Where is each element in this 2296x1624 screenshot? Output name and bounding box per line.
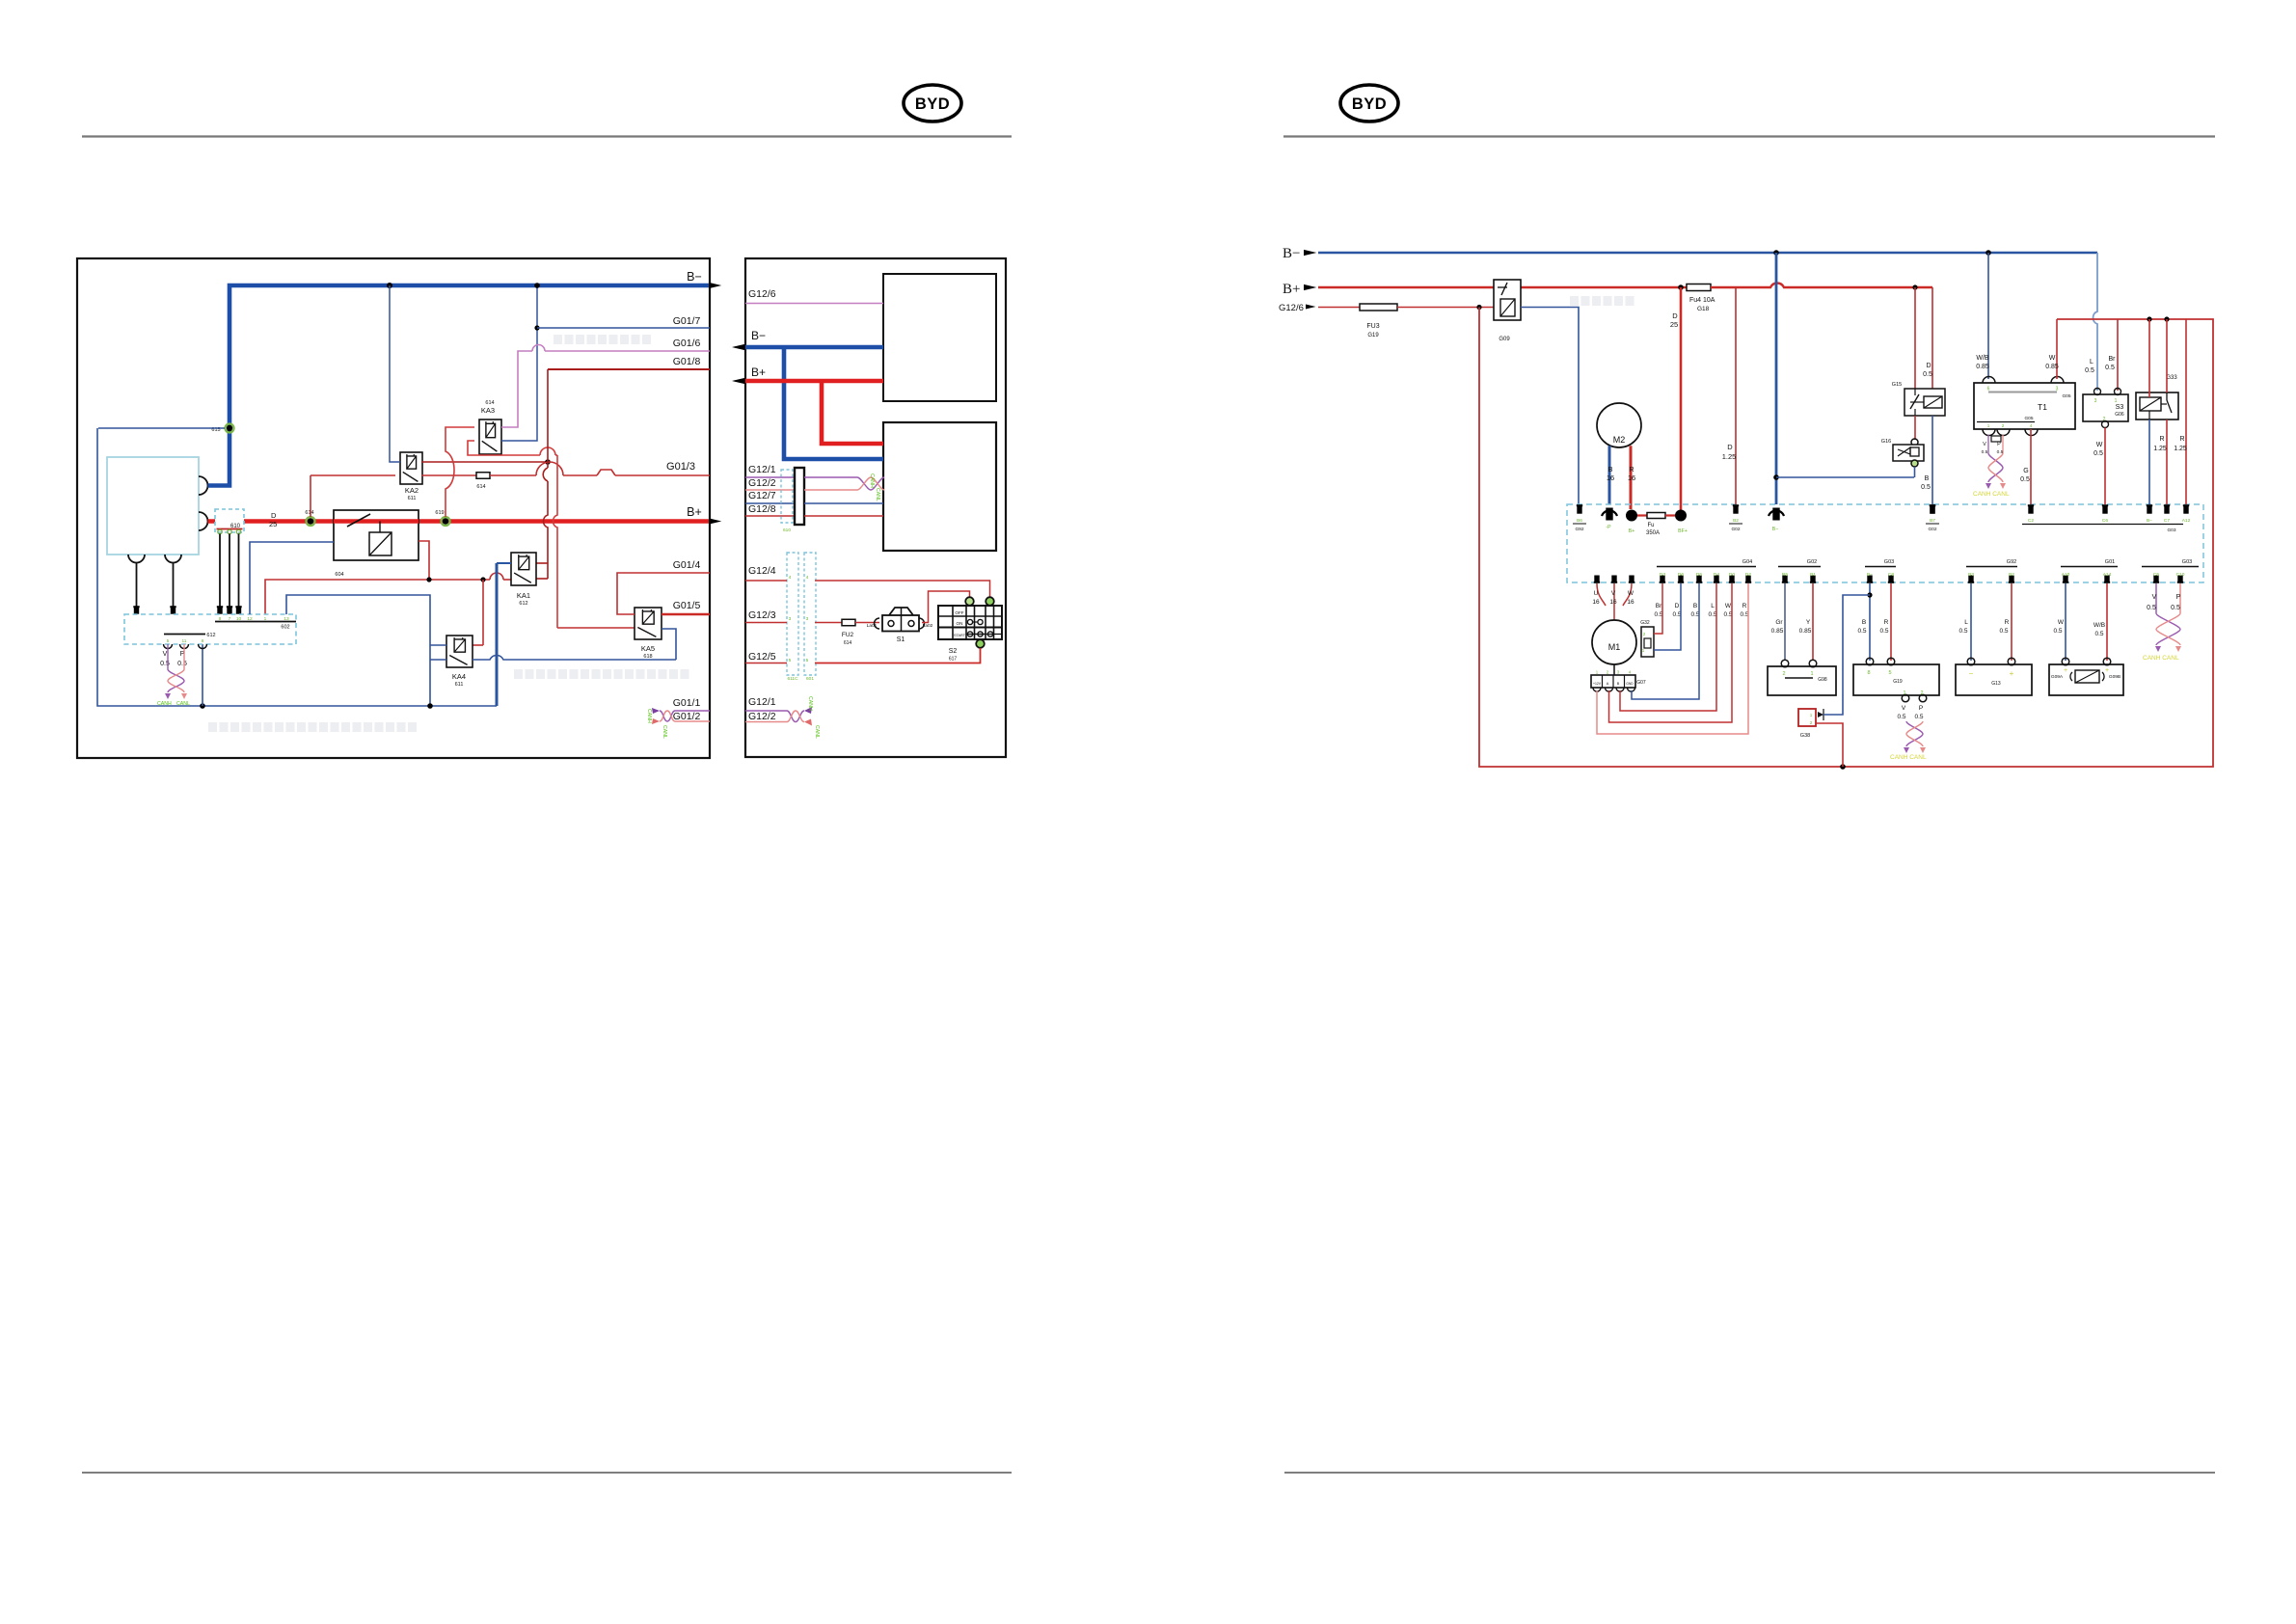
svg-text:KA1: KA1 <box>517 591 530 600</box>
svg-text:FU3: FU3 <box>1366 323 1379 330</box>
svg-text:619: 619 <box>435 510 444 516</box>
svg-text:G98: G98 <box>1818 677 1827 683</box>
svg-text:V: V <box>1902 705 1906 712</box>
svg-text:2: 2 <box>1782 671 1785 677</box>
svg-text:B2: B2 <box>1733 518 1739 524</box>
svg-text:B−: B− <box>1772 527 1779 532</box>
svg-text:0.85: 0.85 <box>1976 364 1989 370</box>
svg-text:G05: G05 <box>2024 416 2033 421</box>
svg-text:CANH CANL: CANH CANL <box>1890 754 1927 761</box>
svg-text:617: 617 <box>949 657 958 663</box>
svg-text:C8: C8 <box>1888 572 1894 578</box>
svg-text:16: 16 <box>1592 599 1600 606</box>
svg-text:8: 8 <box>202 638 204 644</box>
svg-text:BYD: BYD <box>915 95 950 113</box>
svg-text:5: 5 <box>806 658 809 663</box>
svg-text:W: W <box>1725 603 1732 609</box>
svg-text:T1: T1 <box>2038 402 2047 412</box>
svg-text:G05: G05 <box>2062 393 2070 399</box>
svg-text:12: 12 <box>247 616 253 622</box>
svg-text:L: L <box>1711 603 1715 609</box>
svg-text:Br: Br <box>1656 603 1662 609</box>
svg-text:25: 25 <box>269 520 277 528</box>
svg-text:1: 1 <box>1987 423 1990 428</box>
svg-text:B: B <box>1862 619 1866 626</box>
svg-text:A14: A14 <box>2103 572 2112 578</box>
svg-text:0.5: 0.5 <box>1914 714 1923 720</box>
svg-text:G01/5: G01/5 <box>673 600 701 611</box>
svg-text:D3: D3 <box>1660 572 1665 578</box>
svg-text:G09: G09 <box>1499 337 1510 342</box>
svg-text:0.5: 0.5 <box>1982 449 1988 455</box>
svg-text:0.5: 0.5 <box>1958 628 1967 635</box>
svg-text:BYD: BYD <box>1352 95 1387 113</box>
svg-text:B1: B1 <box>1810 572 1816 578</box>
svg-text:0.5: 0.5 <box>2093 450 2103 457</box>
svg-text:Fu4 10A: Fu4 10A <box>1689 297 1715 304</box>
svg-text:1.25: 1.25 <box>2153 446 2167 452</box>
svg-text:G19: G19 <box>1367 333 1379 338</box>
svg-text:B6: B6 <box>1577 518 1582 524</box>
svg-text:CANH: CANH <box>807 696 813 711</box>
svg-text:618: 618 <box>643 654 652 660</box>
svg-text:612: 612 <box>206 633 215 638</box>
svg-text:G12/6: G12/6 <box>748 288 776 300</box>
svg-text:CANH CANL: CANH CANL <box>2143 655 2179 662</box>
svg-text:4: 4 <box>806 575 809 581</box>
svg-text:1.25: 1.25 <box>1722 452 1737 461</box>
svg-text:START: START <box>954 634 966 637</box>
svg-text:S1: S1 <box>897 636 905 643</box>
svg-text:C7: C7 <box>2164 518 2170 524</box>
svg-text:1: 1 <box>264 616 267 622</box>
svg-text:G02: G02 <box>1928 527 1936 532</box>
svg-text:G12/5: G12/5 <box>748 651 776 663</box>
svg-text:C2: C2 <box>2028 518 2034 524</box>
svg-text:D: D <box>271 511 277 520</box>
svg-text:610: 610 <box>783 528 791 533</box>
svg-text:La02: La02 <box>923 623 933 629</box>
svg-text:C6: C6 <box>2102 518 2108 524</box>
svg-text:0.5: 0.5 <box>1857 628 1866 635</box>
svg-text:16: 16 <box>1627 599 1634 606</box>
svg-text:Gr: Gr <box>1775 619 1783 626</box>
svg-text:A10: A10 <box>2062 572 2070 578</box>
svg-text:-P: -P <box>1606 525 1611 530</box>
svg-text:D4: D4 <box>1714 572 1719 578</box>
svg-text:V: V <box>2152 594 2157 601</box>
svg-text:G01/8: G01/8 <box>673 356 701 367</box>
svg-text:R: R <box>2159 436 2164 443</box>
svg-text:1.25: 1.25 <box>2174 446 2187 452</box>
svg-text:W: W <box>1628 590 1634 597</box>
svg-text:10: 10 <box>236 616 242 622</box>
svg-text:0.85: 0.85 <box>2045 364 2059 370</box>
svg-text:0.5: 0.5 <box>177 661 187 667</box>
svg-text:0.5: 0.5 <box>2085 367 2094 374</box>
svg-text:0.85: 0.85 <box>1799 628 1812 635</box>
svg-text:0.5: 0.5 <box>2105 365 2115 371</box>
svg-text:CANL: CANL <box>875 488 880 501</box>
svg-text:G92: G92 <box>2007 559 2016 565</box>
svg-text:614: 614 <box>476 484 485 490</box>
svg-text:0.85: 0.85 <box>1771 628 1784 635</box>
svg-text:2: 2 <box>1810 720 1813 725</box>
svg-text:CANL: CANL <box>662 725 667 739</box>
svg-text:+12V: +12V <box>1593 682 1602 686</box>
svg-text:G12/7: G12/7 <box>748 490 776 501</box>
svg-text:G38: G38 <box>1800 733 1810 739</box>
svg-text:S3: S3 <box>2116 404 2124 411</box>
svg-text:BF+: BF+ <box>1678 528 1688 534</box>
svg-text:B7: B7 <box>1930 518 1935 524</box>
svg-text:G01/4: G01/4 <box>673 559 701 571</box>
svg-text:4: 4 <box>2030 423 2033 428</box>
svg-text:G03: G03 <box>1884 559 1894 565</box>
svg-text:G01: G01 <box>2105 559 2115 565</box>
svg-text:V: V <box>1611 590 1616 597</box>
svg-text:16: 16 <box>1607 474 1614 482</box>
svg-text:G12/2: G12/2 <box>748 477 776 489</box>
svg-text:3: 3 <box>806 616 809 622</box>
svg-text:ON: ON <box>957 621 963 626</box>
svg-text:+: + <box>2010 669 2014 678</box>
svg-text:B−: B− <box>1867 572 1873 578</box>
svg-text:G01/6: G01/6 <box>673 338 701 349</box>
svg-text:G19: G19 <box>1893 679 1903 685</box>
svg-text:B−: B− <box>1283 246 1300 261</box>
svg-text:2: 2 <box>2002 423 2005 428</box>
svg-text:L: L <box>2090 359 2093 365</box>
svg-text:604: 604 <box>335 572 343 578</box>
svg-text:3: 3 <box>2094 398 2097 404</box>
svg-text:4: 4 <box>789 575 792 581</box>
svg-text:R: R <box>2179 436 2184 443</box>
svg-text:CANH: CANH <box>869 474 875 488</box>
svg-text:G15: G15 <box>1892 382 1902 388</box>
svg-text:1: 1 <box>1810 671 1813 677</box>
svg-text:G12/4: G12/4 <box>748 565 776 577</box>
svg-text:8: 8 <box>219 616 222 622</box>
svg-text:CANL: CANL <box>176 701 190 707</box>
svg-text:U: U <box>1594 590 1599 597</box>
svg-text:R: R <box>1742 603 1747 609</box>
svg-text:C5: C5 <box>2153 572 2159 578</box>
svg-text:D: D <box>1675 603 1680 609</box>
svg-text:B: B <box>1925 475 1930 482</box>
svg-text:M1: M1 <box>1608 642 1621 652</box>
svg-text:Y: Y <box>1806 619 1811 626</box>
svg-text:614: 614 <box>305 510 313 516</box>
svg-text:B+: B+ <box>1283 282 1300 297</box>
svg-text:CANH CANL: CANH CANL <box>1973 491 2010 498</box>
svg-text:G03: G03 <box>2167 528 2175 533</box>
svg-text:CANH: CANH <box>646 709 652 723</box>
svg-text:13: 13 <box>284 616 289 622</box>
svg-text:25: 25 <box>1670 320 1678 329</box>
svg-text:G92: G92 <box>1575 527 1583 532</box>
svg-text:2: 2 <box>1920 690 1923 696</box>
svg-text:OFF: OFF <box>955 610 963 615</box>
svg-text:GND: GND <box>1626 682 1634 686</box>
svg-text:R: R <box>1884 619 1889 626</box>
svg-text:G13: G13 <box>1991 681 2001 687</box>
svg-text:602: 602 <box>281 625 289 631</box>
svg-text:0.5: 0.5 <box>2020 476 2030 483</box>
svg-text:A12: A12 <box>2182 518 2191 524</box>
svg-text:C10: C10 <box>2176 572 2185 578</box>
svg-text:G12/6: G12/6 <box>1279 303 1304 313</box>
svg-text:0.5: 0.5 <box>1879 628 1888 635</box>
svg-text:3: 3 <box>789 616 792 622</box>
svg-text:G03: G03 <box>2182 559 2192 565</box>
svg-text:G06: G06 <box>2115 412 2124 418</box>
svg-text:G33: G33 <box>2166 375 2177 381</box>
svg-text:8: 8 <box>1867 670 1870 676</box>
svg-text:G02: G02 <box>1731 527 1740 532</box>
svg-text:G: G <box>2023 468 2028 474</box>
svg-text:W: W <box>2096 442 2103 448</box>
svg-text:R5: R5 <box>1782 572 1788 578</box>
svg-text:G12/2: G12/2 <box>748 711 776 722</box>
svg-text:0.5: 0.5 <box>1921 484 1931 491</box>
svg-text:CANH: CANH <box>157 701 172 707</box>
svg-text:610: 610 <box>230 524 241 529</box>
svg-text:D: D <box>1727 443 1733 451</box>
svg-text:D6: D6 <box>1678 572 1684 578</box>
svg-text:P: P <box>2176 594 2181 601</box>
svg-text:V: V <box>163 651 168 658</box>
svg-text:B−: B− <box>2147 518 2152 524</box>
svg-text:G12/8: G12/8 <box>748 503 776 515</box>
svg-text:611C: 611C <box>787 676 798 682</box>
svg-text:B: B <box>1607 465 1612 474</box>
svg-text:La01: La01 <box>867 623 878 629</box>
svg-text:Br: Br <box>2109 356 2117 363</box>
svg-text:W: W <box>2058 619 2065 626</box>
svg-text:+: + <box>2105 667 2109 674</box>
svg-text:G01/7: G01/7 <box>673 315 701 327</box>
svg-text:G16: G16 <box>1881 439 1891 445</box>
svg-text:G02: G02 <box>1807 559 1817 565</box>
svg-text:G09B: G09B <box>2109 674 2120 680</box>
svg-text:1: 1 <box>1903 690 1905 696</box>
svg-text:B2: B2 <box>2009 572 2014 578</box>
svg-text:0.5: 0.5 <box>1999 628 2008 635</box>
svg-text:D0: D0 <box>1729 572 1735 578</box>
svg-text:B+: B+ <box>687 505 702 519</box>
svg-text:B: B <box>1617 682 1620 686</box>
svg-text:16: 16 <box>1628 474 1635 482</box>
svg-text:D: D <box>1672 311 1678 320</box>
svg-text:2: 2 <box>1643 632 1646 636</box>
svg-text:7: 7 <box>229 616 231 622</box>
svg-text:B+: B+ <box>751 365 766 379</box>
svg-text:G01/1: G01/1 <box>673 697 701 709</box>
svg-text:FU2: FU2 <box>842 632 854 638</box>
svg-text:0.5: 0.5 <box>2094 631 2103 637</box>
svg-text:KA5: KA5 <box>641 644 655 653</box>
svg-text:G07: G07 <box>1636 680 1646 686</box>
svg-text:Fu: Fu <box>1647 523 1654 528</box>
svg-text:B: B <box>1693 603 1697 609</box>
svg-text:D: D <box>1926 363 1931 369</box>
svg-text:B+: B+ <box>1629 528 1635 534</box>
svg-text:614: 614 <box>844 640 852 646</box>
svg-text:1: 1 <box>1642 648 1645 653</box>
svg-text:KA2: KA2 <box>405 486 419 495</box>
svg-text:G12/3: G12/3 <box>748 609 776 621</box>
svg-text:V: V <box>1983 442 1986 447</box>
svg-text:611: 611 <box>455 682 464 688</box>
svg-text:KA4: KA4 <box>452 672 466 681</box>
svg-text:G18: G18 <box>1697 306 1710 312</box>
svg-text:B−: B− <box>687 270 702 284</box>
svg-text:+: + <box>2064 667 2067 674</box>
svg-text:16: 16 <box>1609 599 1617 606</box>
svg-text:−: − <box>1969 669 1974 678</box>
svg-text:G01/3: G01/3 <box>666 461 695 473</box>
svg-text:L: L <box>1964 619 1968 626</box>
svg-text:611: 611 <box>408 496 417 501</box>
svg-text:A: A <box>1607 682 1609 686</box>
svg-text:0.5: 0.5 <box>1923 371 1932 378</box>
svg-text:M2: M2 <box>1613 435 1626 445</box>
svg-text:350A: 350A <box>1646 530 1660 536</box>
svg-text:1: 1 <box>1810 713 1813 717</box>
svg-text:G04: G04 <box>1742 559 1752 565</box>
svg-text:G01/2: G01/2 <box>673 711 701 722</box>
svg-text:0.5: 0.5 <box>1897 714 1905 720</box>
svg-text:5: 5 <box>789 658 792 663</box>
svg-text:5: 5 <box>167 638 170 644</box>
svg-text:P: P <box>1919 705 1923 712</box>
svg-text:R: R <box>2005 619 2010 626</box>
svg-text:KA3: KA3 <box>481 406 495 415</box>
svg-text:D5: D5 <box>1696 572 1702 578</box>
svg-text:0.5: 0.5 <box>2147 605 2156 611</box>
svg-text:G09A: G09A <box>2051 674 2064 680</box>
svg-text:0.5: 0.5 <box>2053 628 2062 635</box>
svg-text:D2: D2 <box>1745 572 1751 578</box>
svg-text:R: R <box>1629 465 1634 474</box>
svg-text:G12/1: G12/1 <box>748 464 776 475</box>
svg-text:612: 612 <box>519 601 527 607</box>
svg-text:B−: B− <box>751 329 766 342</box>
svg-text:W: W <box>2049 355 2056 362</box>
svg-text:CANL: CANL <box>814 725 820 739</box>
svg-text:2: 2 <box>2103 417 2106 422</box>
svg-text:W/B: W/B <box>2093 622 2105 629</box>
svg-text:B3: B3 <box>1968 572 1974 578</box>
svg-text:S2: S2 <box>949 648 958 655</box>
svg-text:11: 11 <box>182 638 187 644</box>
svg-text:G12/1: G12/1 <box>748 696 776 708</box>
svg-text:P: P <box>1997 442 2001 447</box>
svg-text:0.5: 0.5 <box>2171 605 2180 611</box>
svg-text:601: 601 <box>806 676 814 682</box>
svg-text:G32: G32 <box>1640 620 1650 626</box>
svg-text:W/B: W/B <box>1976 355 1989 362</box>
svg-text:5: 5 <box>1888 670 1891 676</box>
